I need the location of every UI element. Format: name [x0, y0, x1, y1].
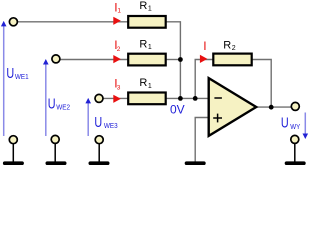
svg-text:U: U	[6, 66, 14, 82]
wire op-amp output	[255, 106, 292, 108]
wire ground stem B	[54, 144, 56, 163]
wire input row1	[16, 21, 128, 23]
terminal ground A	[9, 136, 17, 144]
svg-text:1: 1	[148, 83, 152, 90]
wire row2 to summing node	[166, 59, 181, 61]
voltage arrow UWY	[304, 113, 306, 135]
ground symbol C	[89, 161, 110, 165]
svg-text:I: I	[203, 39, 206, 53]
junction node summing 0V	[193, 96, 198, 101]
svg-text:R: R	[139, 38, 147, 50]
op-amp plus pin mark	[213, 117, 222, 119]
wire output terminal to ground	[294, 144, 296, 163]
svg-text:WE1: WE1	[15, 74, 29, 81]
op-amp U1	[209, 78, 257, 136]
svg-text:R: R	[223, 40, 231, 52]
current arrow I feedback	[200, 55, 208, 63]
terminal input 2	[52, 55, 60, 63]
svg-text:1: 1	[148, 44, 152, 51]
ground symbol B	[46, 161, 67, 165]
junction node row2	[178, 57, 183, 62]
svg-text:U: U	[48, 96, 56, 112]
wire non-inverting input to ground	[195, 118, 209, 163]
svg-text:1: 1	[148, 6, 152, 13]
ground symbol output	[285, 161, 306, 165]
wire ground stem C	[98, 144, 100, 162]
svg-text:U: U	[281, 116, 289, 132]
wire feedback right	[252, 60, 271, 108]
voltage arrow UWE3	[87, 103, 89, 137]
terminal input 3	[95, 94, 103, 102]
resistor R1 (input 1)	[128, 16, 166, 28]
svg-text:1: 1	[117, 8, 121, 15]
svg-text:R: R	[139, 0, 147, 12]
svg-text:WY: WY	[290, 124, 300, 131]
svg-text:WE3: WE3	[104, 123, 118, 130]
svg-text:3: 3	[117, 84, 121, 91]
terminal input 1	[9, 18, 17, 26]
svg-text:WE2: WE2	[56, 104, 70, 111]
resistor R1 (input 2)	[128, 54, 166, 66]
svg-text:R: R	[139, 77, 147, 89]
wire row1 to summing node	[166, 22, 181, 99]
ground symbol A	[3, 161, 24, 165]
svg-text:2: 2	[117, 46, 121, 53]
current arrow I2	[113, 55, 121, 63]
junction node row3 left	[178, 96, 183, 101]
resistor R1 (input 3)	[128, 93, 166, 105]
current arrow I1	[113, 17, 121, 25]
wire row3 to op-amp inverting input	[166, 97, 210, 99]
ground symbol op-amp plus	[185, 161, 206, 165]
terminal output bottom	[291, 135, 299, 143]
resistor R2 feedback	[213, 54, 251, 66]
op-amp minus pin mark	[214, 97, 222, 99]
svg-text:2: 2	[232, 45, 236, 52]
svg-text:0V: 0V	[170, 103, 185, 117]
wire input row2	[59, 59, 128, 61]
terminal ground C	[95, 136, 103, 144]
svg-text:U: U	[94, 115, 102, 131]
terminal output top	[291, 102, 299, 110]
voltage arrow UWE2	[45, 64, 47, 136]
terminal ground B	[51, 135, 59, 143]
junction node output	[269, 105, 274, 110]
wire input row3	[102, 97, 128, 99]
voltage arrow UWE1	[3, 26, 5, 137]
current arrow I3	[113, 95, 121, 103]
wire ground stem A	[12, 144, 14, 162]
wire feedback left riser	[195, 60, 213, 99]
